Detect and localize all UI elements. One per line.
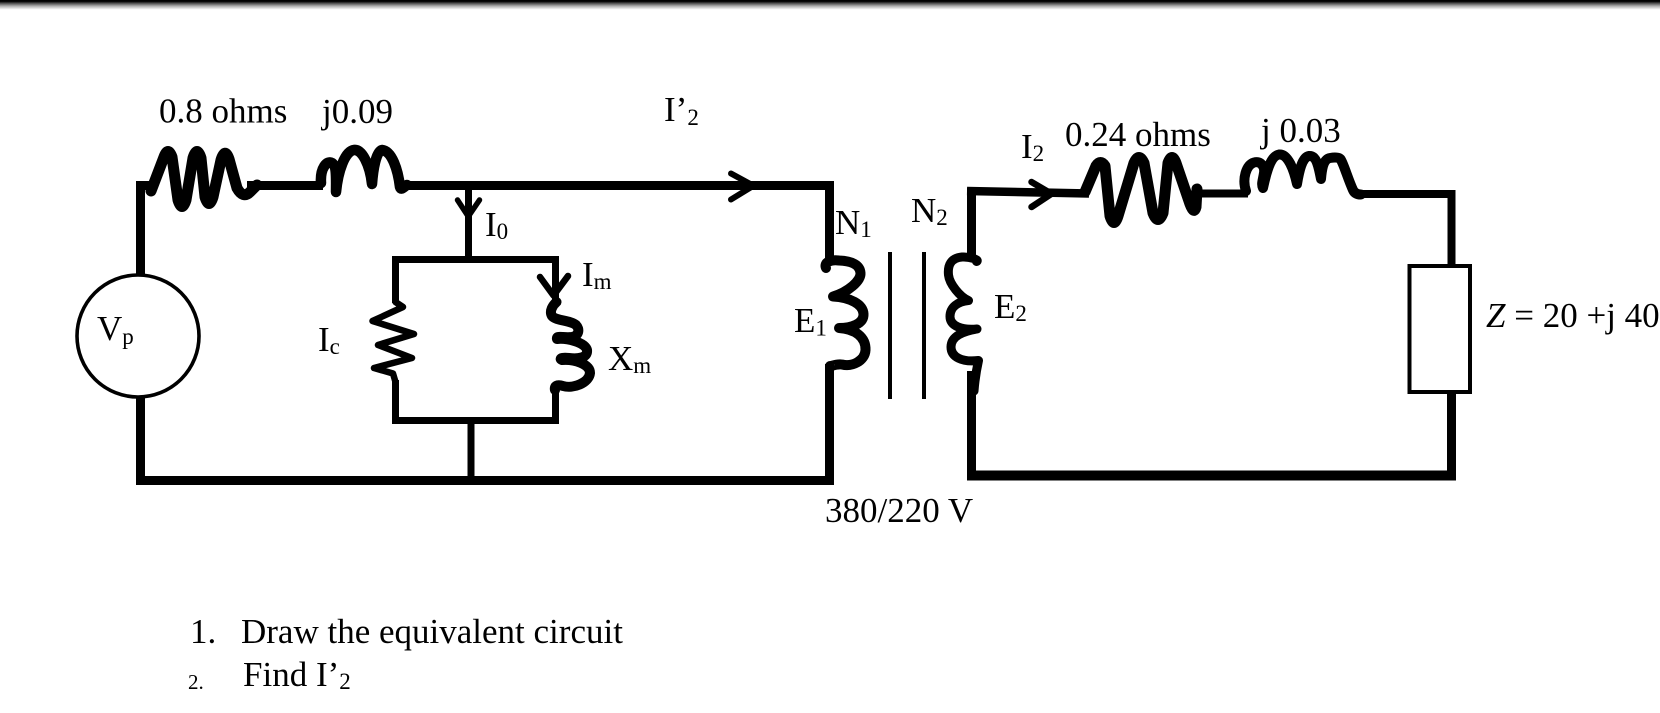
parallel box top wire [392, 256, 559, 263]
svg-text:380/220 V: 380/220 V [825, 491, 973, 530]
inductor Xm (vertical coil scribble) [551, 302, 590, 390]
winding E2 (secondary coil) [948, 257, 978, 391]
box left vertical lower [392, 380, 399, 424]
box left vertical upper [392, 256, 399, 303]
resistor Ic (vertical zigzag) [373, 302, 415, 382]
wire: junction stem down to parallel box [465, 185, 472, 262]
box right vertical upper [552, 256, 559, 305]
inductor j0.09 (scribble) [321, 150, 407, 192]
svg-text:1.: 1. [190, 612, 216, 651]
transformer core line 1 [888, 252, 892, 399]
wire: top-left stub [136, 181, 154, 190]
wire: secondary top segment 2 [1199, 190, 1248, 198]
wire: top segment between R and L [247, 181, 323, 190]
resistor 0.24 ohms (scribble) [1085, 158, 1197, 223]
transformer core line 2 [922, 252, 926, 399]
inductor j 0.03 (scribble) [1244, 154, 1361, 194]
wire: right vertical below load [1447, 392, 1456, 480]
wire: secondary top segment 3 with right corner [1358, 190, 1452, 268]
svg-text:Draw the equivalent circuit: Draw the equivalent circuit [241, 612, 623, 651]
svg-text:2.: 2. [188, 670, 204, 694]
parallel box bottom wire [392, 417, 559, 424]
resistor R 0.8 ohms (scribble) [151, 152, 257, 207]
wire: secondary left vertical top [967, 188, 976, 259]
arrow I'2 [731, 174, 754, 200]
top border bar [0, 0, 1660, 10]
arrow Im [540, 276, 568, 296]
wire: secondary bottom [967, 471, 1456, 481]
winding E1 (primary coil) [826, 260, 866, 366]
svg-text:j0.09: j0.09 [320, 92, 393, 131]
wire: secondary top segment 1 [967, 191, 1089, 194]
wire: stem below box to bottom wire [468, 418, 475, 481]
load Z rectangle [1410, 266, 1471, 392]
svg-text:0.24 ohms: 0.24 ohms [1065, 115, 1211, 154]
arrow I2 [1032, 182, 1052, 207]
svg-text:Find I’2: Find I’2 [243, 655, 351, 694]
arrow I0 [458, 200, 480, 217]
wire: left vertical top (source to top wire) [136, 185, 145, 277]
svg-text:j 0.03: j 0.03 [1259, 111, 1341, 150]
svg-text:0.8 ohms: 0.8 ohms [159, 92, 287, 131]
wire: primary bottom [136, 364, 834, 481]
svg-text:Z = 20 +j 40: Z = 20 +j 40 [1486, 296, 1660, 335]
wire: secondary left vertical bottom [967, 371, 976, 480]
box right vertical lower [552, 386, 559, 424]
voltage source Vp circle [77, 275, 199, 397]
wire: left vertical bottom [136, 396, 145, 481]
wire: top main to transformer, with right corner down [406, 181, 830, 263]
